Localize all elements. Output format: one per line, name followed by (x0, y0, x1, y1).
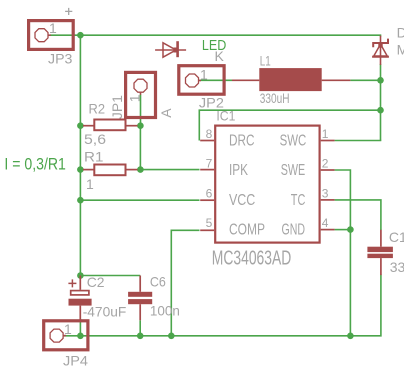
svg-text:1: 1 (322, 127, 329, 141)
svg-text:1: 1 (49, 20, 57, 36)
svg-text:R2: R2 (89, 100, 106, 116)
svg-text:COMP: COMP (229, 222, 265, 239)
svg-text:I = 0,3/R1: I = 0,3/R1 (4, 156, 66, 174)
zener diode D1 (372, 36, 389, 65)
junction node VCC (77, 197, 84, 204)
pin 6 stub (200, 199, 214, 201)
pin 7 stub (200, 169, 214, 171)
pin 8 stub (200, 140, 214, 142)
svg-text:A: A (158, 108, 174, 118)
svg-text:D1: D1 (397, 25, 404, 41)
capacitor C1 (367, 230, 393, 275)
svg-text:JP1: JP1 (109, 95, 125, 119)
junction node R2 left (77, 122, 84, 129)
wire C2 to C6 horizontal (80, 275, 140, 277)
svg-text:L1: L1 (260, 53, 271, 69)
svg-text:100n: 100n (150, 303, 180, 319)
resistor R1 (83, 165, 138, 176)
wire TC pin3 to C1 (335, 200, 381, 230)
wire zener cathode to L1 node (380, 64, 382, 141)
junction node JP4 (77, 333, 84, 340)
capacitor C2 polarized (68, 276, 91, 320)
svg-text:JP3: JP3 (48, 50, 73, 66)
svg-text:MB: MB (397, 42, 404, 58)
svg-text:IPK: IPK (229, 162, 249, 179)
svg-text:TC: TC (291, 192, 306, 209)
wire COMP pin5 down to rail (171, 230, 199, 335)
wire JP1 down to R2 node (140, 95, 142, 126)
inductor L1 (232, 68, 350, 91)
resistor R2 (83, 120, 138, 131)
connector JP3 (29, 21, 74, 50)
wire C6 bottom to rail (139, 320, 141, 336)
diode D2 (LED position) (155, 41, 186, 57)
wire VIN top rail (50, 35, 381, 36)
junction node R1 left (77, 166, 84, 173)
junction node SWE rail (347, 333, 354, 340)
junction node C2 top (77, 272, 84, 279)
wire SWC pin1 (335, 139, 381, 142)
wire VIN left rail (79, 35, 81, 275)
wire SWE pin2 down to GND node (335, 170, 351, 336)
svg-text:330uH: 330uH (260, 90, 290, 106)
svg-text:1: 1 (86, 176, 94, 192)
pin stub JP1 (140, 93, 142, 95)
svg-text:VCC: VCC (229, 192, 255, 209)
pin 1 stub (321, 140, 335, 142)
svg-text:1: 1 (64, 321, 72, 337)
svg-text:6: 6 (206, 186, 213, 200)
svg-text:JP4: JP4 (63, 352, 88, 368)
svg-text:330p: 330p (390, 259, 404, 275)
wire L1 to zener node (350, 79, 380, 81)
IC U1 MC34063AD body (215, 126, 319, 243)
svg-text:5: 5 (206, 216, 213, 230)
wire C2 bottom to rail (79, 319, 81, 336)
connector JP1 (126, 72, 156, 117)
junction node VIN top (77, 32, 84, 39)
pin 3 stub (321, 199, 335, 201)
svg-text:C2: C2 (87, 274, 105, 290)
svg-text:5,6: 5,6 (84, 131, 106, 147)
wire bottom GND rail (64, 275, 381, 336)
junction node R2 right (137, 122, 144, 129)
capacitor C6 (128, 276, 152, 321)
svg-text:C6: C6 (150, 274, 166, 290)
svg-text:IC1: IC1 (216, 108, 235, 124)
label + JP3 (65, 8, 72, 15)
junction node R1 right (137, 166, 144, 173)
svg-text:3: 3 (322, 186, 329, 200)
wire GND pin4 (335, 229, 351, 231)
svg-text:DRC: DRC (229, 133, 255, 150)
pin 2 stub (321, 169, 335, 171)
svg-text:8: 8 (206, 127, 213, 141)
svg-text:1: 1 (126, 94, 142, 102)
svg-text:1: 1 (200, 67, 208, 83)
svg-text:7: 7 (206, 157, 213, 171)
svg-text:MC34063AD: MC34063AD (212, 247, 291, 269)
junction node DRC zener (377, 107, 384, 114)
junction node GND pin4 (347, 226, 354, 233)
svg-text:C1: C1 (389, 229, 404, 245)
wire R2 node to R1 node (139, 126, 141, 170)
pin 5 stub (200, 229, 214, 231)
svg-text:R1: R1 (84, 148, 104, 164)
svg-text:4: 4 (322, 216, 329, 230)
junction node COMP rail (168, 333, 175, 340)
svg-text:SWE: SWE (281, 162, 306, 179)
junction node C6 rail (137, 333, 144, 340)
connector JP4 (44, 321, 88, 350)
svg-text:-470uF: -470uF (83, 304, 127, 320)
pin 4 stub (321, 229, 335, 231)
wire DRC link horizontal (199, 110, 380, 140)
svg-text:SWC: SWC (280, 133, 307, 150)
wire VCC pin6 (80, 199, 199, 201)
junction node L1 zener (377, 77, 384, 84)
svg-text:2: 2 (322, 157, 329, 171)
svg-text:GND: GND (282, 222, 306, 239)
wire IPK pin7 (140, 169, 199, 171)
wire JP2 to L1 (200, 79, 233, 81)
svg-text:K: K (215, 48, 225, 64)
connector JP2 (179, 66, 224, 95)
